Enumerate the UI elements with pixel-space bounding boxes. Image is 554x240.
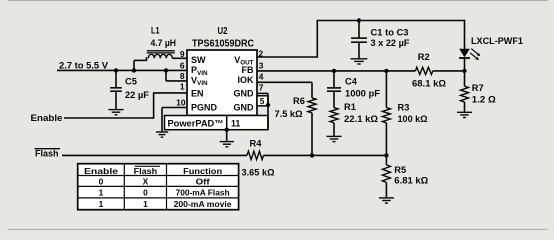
svg-text:68.1 kΩ: 68.1 kΩ bbox=[412, 79, 447, 89]
wire IOK to R6 bbox=[257, 81, 312, 83]
inductor L1 bbox=[148, 54, 172, 58]
ground PowerPAD bbox=[220, 142, 234, 147]
svg-text:GND: GND bbox=[234, 89, 255, 99]
wire C4 to R1 bbox=[333, 91, 335, 107]
node junction R3 tap bbox=[384, 69, 388, 73]
wire Flash line left bbox=[62, 154, 247, 156]
wire GND pin7 down right side bbox=[257, 92, 268, 94]
wire R5 stem bbox=[385, 155, 387, 165]
svg-text:IOK: IOK bbox=[237, 75, 254, 85]
wire C1C3 stem bbox=[358, 21, 360, 38]
capacitor C5 bbox=[110, 87, 122, 89]
svg-text:FB: FB bbox=[242, 65, 254, 75]
resistor R2 bbox=[415, 67, 432, 74]
node junction pin11 bbox=[225, 128, 229, 132]
svg-text:C1 to C3: C1 to C3 bbox=[371, 28, 409, 38]
node junction C5 tap bbox=[114, 68, 118, 72]
svg-text:X: X bbox=[143, 176, 149, 186]
op-amp U2 body TPS61059DRC bbox=[187, 50, 257, 116]
svg-text:1.2 Ω: 1.2 Ω bbox=[472, 94, 497, 104]
wire R3 to flash line bbox=[385, 123, 387, 156]
wire C5 to ground bbox=[115, 91, 117, 109]
svg-text:6.81 kΩ: 6.81 kΩ bbox=[394, 176, 429, 186]
svg-text:22.1 kΩ: 22.1 kΩ bbox=[344, 114, 379, 124]
svg-text:R7: R7 bbox=[472, 83, 484, 93]
wire C5 stem bbox=[115, 70, 117, 87]
svg-text:Flash: Flash bbox=[35, 149, 59, 160]
svg-text:5: 5 bbox=[260, 96, 265, 106]
pin 5 box bbox=[257, 96, 268, 106]
wire inductor right lead to SW bbox=[172, 57, 187, 59]
wire R6 to flash line bbox=[311, 113, 313, 156]
ground C1C3 bbox=[351, 59, 368, 64]
capacitor C4 bbox=[327, 87, 341, 89]
svg-text:4: 4 bbox=[259, 71, 264, 81]
svg-text:R6: R6 bbox=[293, 96, 305, 106]
wire VOUT to top rail bbox=[257, 56, 317, 58]
svg-text:C5: C5 bbox=[125, 77, 137, 87]
resistor R4 bbox=[247, 151, 264, 159]
svg-text:R1: R1 bbox=[344, 102, 356, 112]
svg-text:L1: L1 bbox=[151, 26, 160, 36]
svg-text:GND: GND bbox=[234, 102, 255, 112]
ground C5 bbox=[109, 110, 124, 115]
node junction pin5 bbox=[266, 103, 270, 107]
resistor R5 bbox=[382, 165, 390, 183]
svg-text:10: 10 bbox=[176, 98, 186, 108]
wire VVIN riser bbox=[165, 70, 167, 81]
wire C1C3 to ground bbox=[358, 42, 360, 58]
wire top rail to LED bbox=[464, 20, 466, 49]
node junction inductor tap bbox=[132, 68, 136, 72]
node junction C4 tap bbox=[332, 69, 336, 73]
svg-text:Enable: Enable bbox=[84, 166, 118, 176]
svg-text:3: 3 bbox=[259, 60, 264, 70]
svg-text:C4: C4 bbox=[345, 76, 358, 86]
svg-text:0: 0 bbox=[143, 188, 148, 198]
svg-text:8: 8 bbox=[180, 71, 185, 81]
svg-text:PGND: PGND bbox=[191, 102, 218, 112]
wire FB line right bbox=[433, 70, 465, 72]
ground R5 bbox=[379, 198, 394, 203]
svg-text:1: 1 bbox=[180, 81, 185, 91]
svg-text:3 x 22 µF: 3 x 22 µF bbox=[371, 38, 410, 48]
wire FB line left bbox=[257, 70, 415, 72]
ground R1 bbox=[327, 136, 342, 141]
svg-text:LXCL-PWF1: LXCL-PWF1 bbox=[471, 36, 524, 47]
svg-text:R3: R3 bbox=[398, 103, 410, 113]
svg-text:9: 9 bbox=[180, 49, 185, 59]
svg-text:Enable: Enable bbox=[31, 113, 63, 124]
svg-text:11: 11 bbox=[231, 118, 240, 128]
svg-text:100 kΩ: 100 kΩ bbox=[398, 114, 429, 124]
wire PGND to ground bbox=[162, 107, 187, 109]
ground R7 bbox=[457, 112, 472, 117]
wire R3 stem bbox=[385, 71, 387, 108]
svg-text:200-mA movie: 200-mA movie bbox=[174, 199, 232, 209]
svg-text:1: 1 bbox=[143, 199, 148, 209]
svg-text:1000 pF: 1000 pF bbox=[345, 89, 380, 99]
table flash-mode box bbox=[78, 164, 239, 210]
svg-text:Flash: Flash bbox=[134, 166, 158, 176]
wire C4 stem bbox=[333, 71, 335, 87]
wire Enable to EN bbox=[64, 117, 154, 119]
resistor R3 bbox=[382, 108, 390, 123]
svg-text:R5: R5 bbox=[394, 165, 406, 175]
svg-text:7: 7 bbox=[259, 83, 264, 93]
svg-text:1: 1 bbox=[99, 188, 104, 198]
node junction C1C3 tap bbox=[357, 18, 361, 22]
svg-text:0: 0 bbox=[99, 176, 104, 186]
svg-text:R2: R2 bbox=[418, 52, 430, 62]
svg-text:R4: R4 bbox=[250, 139, 263, 149]
svg-text:3.65 kΩ: 3.65 kΩ bbox=[242, 167, 276, 177]
svg-text:22 µF: 22 µF bbox=[125, 90, 149, 100]
svg-text:EN: EN bbox=[191, 89, 204, 99]
wire R7 to ground bbox=[464, 102, 466, 112]
wire inductor left lead bbox=[133, 60, 135, 70]
svg-text:SW: SW bbox=[191, 55, 206, 65]
node junction LED R7 bbox=[462, 69, 466, 73]
node junction R5 flash bbox=[384, 153, 388, 157]
node Flash label bbox=[35, 148, 61, 150]
svg-text:U2: U2 bbox=[218, 26, 228, 37]
svg-text:Off: Off bbox=[196, 176, 210, 186]
wire input rail bbox=[57, 69, 187, 71]
node junction R6 flash bbox=[310, 153, 314, 157]
wire Flash line right bbox=[264, 154, 387, 156]
resistor R1 bbox=[330, 108, 338, 123]
svg-text:6: 6 bbox=[180, 60, 185, 70]
LED D1 LXCL-PWF1 bbox=[459, 49, 470, 57]
wire R1 to ground bbox=[333, 123, 335, 136]
svg-text:4.7 µH: 4.7 µH bbox=[151, 38, 177, 48]
table header Flash bbox=[135, 165, 160, 167]
wire pin11 stem bbox=[226, 130, 228, 142]
capacitor C1 to C3 bbox=[351, 37, 367, 39]
svg-text:7.5 kΩ: 7.5 kΩ bbox=[275, 109, 304, 119]
wire R5 to ground bbox=[385, 182, 387, 197]
ground PGND bbox=[156, 132, 168, 137]
node junction VVIN tap bbox=[164, 68, 168, 72]
svg-text:PowerPAD™: PowerPAD™ bbox=[168, 119, 224, 129]
svg-text:700-mA Flash: 700-mA Flash bbox=[176, 188, 230, 198]
svg-text:1: 1 bbox=[99, 199, 104, 209]
resistor R6 bbox=[308, 98, 316, 113]
PowerPAD box bbox=[165, 116, 269, 130]
resistor R7 bbox=[461, 86, 469, 102]
svg-text:TPS61059DRC: TPS61059DRC bbox=[192, 38, 255, 49]
wire node to R7 bbox=[464, 71, 466, 86]
svg-text:Function: Function bbox=[183, 166, 222, 176]
svg-text:2.7 to 5.5 V: 2.7 to 5.5 V bbox=[59, 60, 109, 71]
wire LED cathode to node bbox=[464, 58, 466, 71]
